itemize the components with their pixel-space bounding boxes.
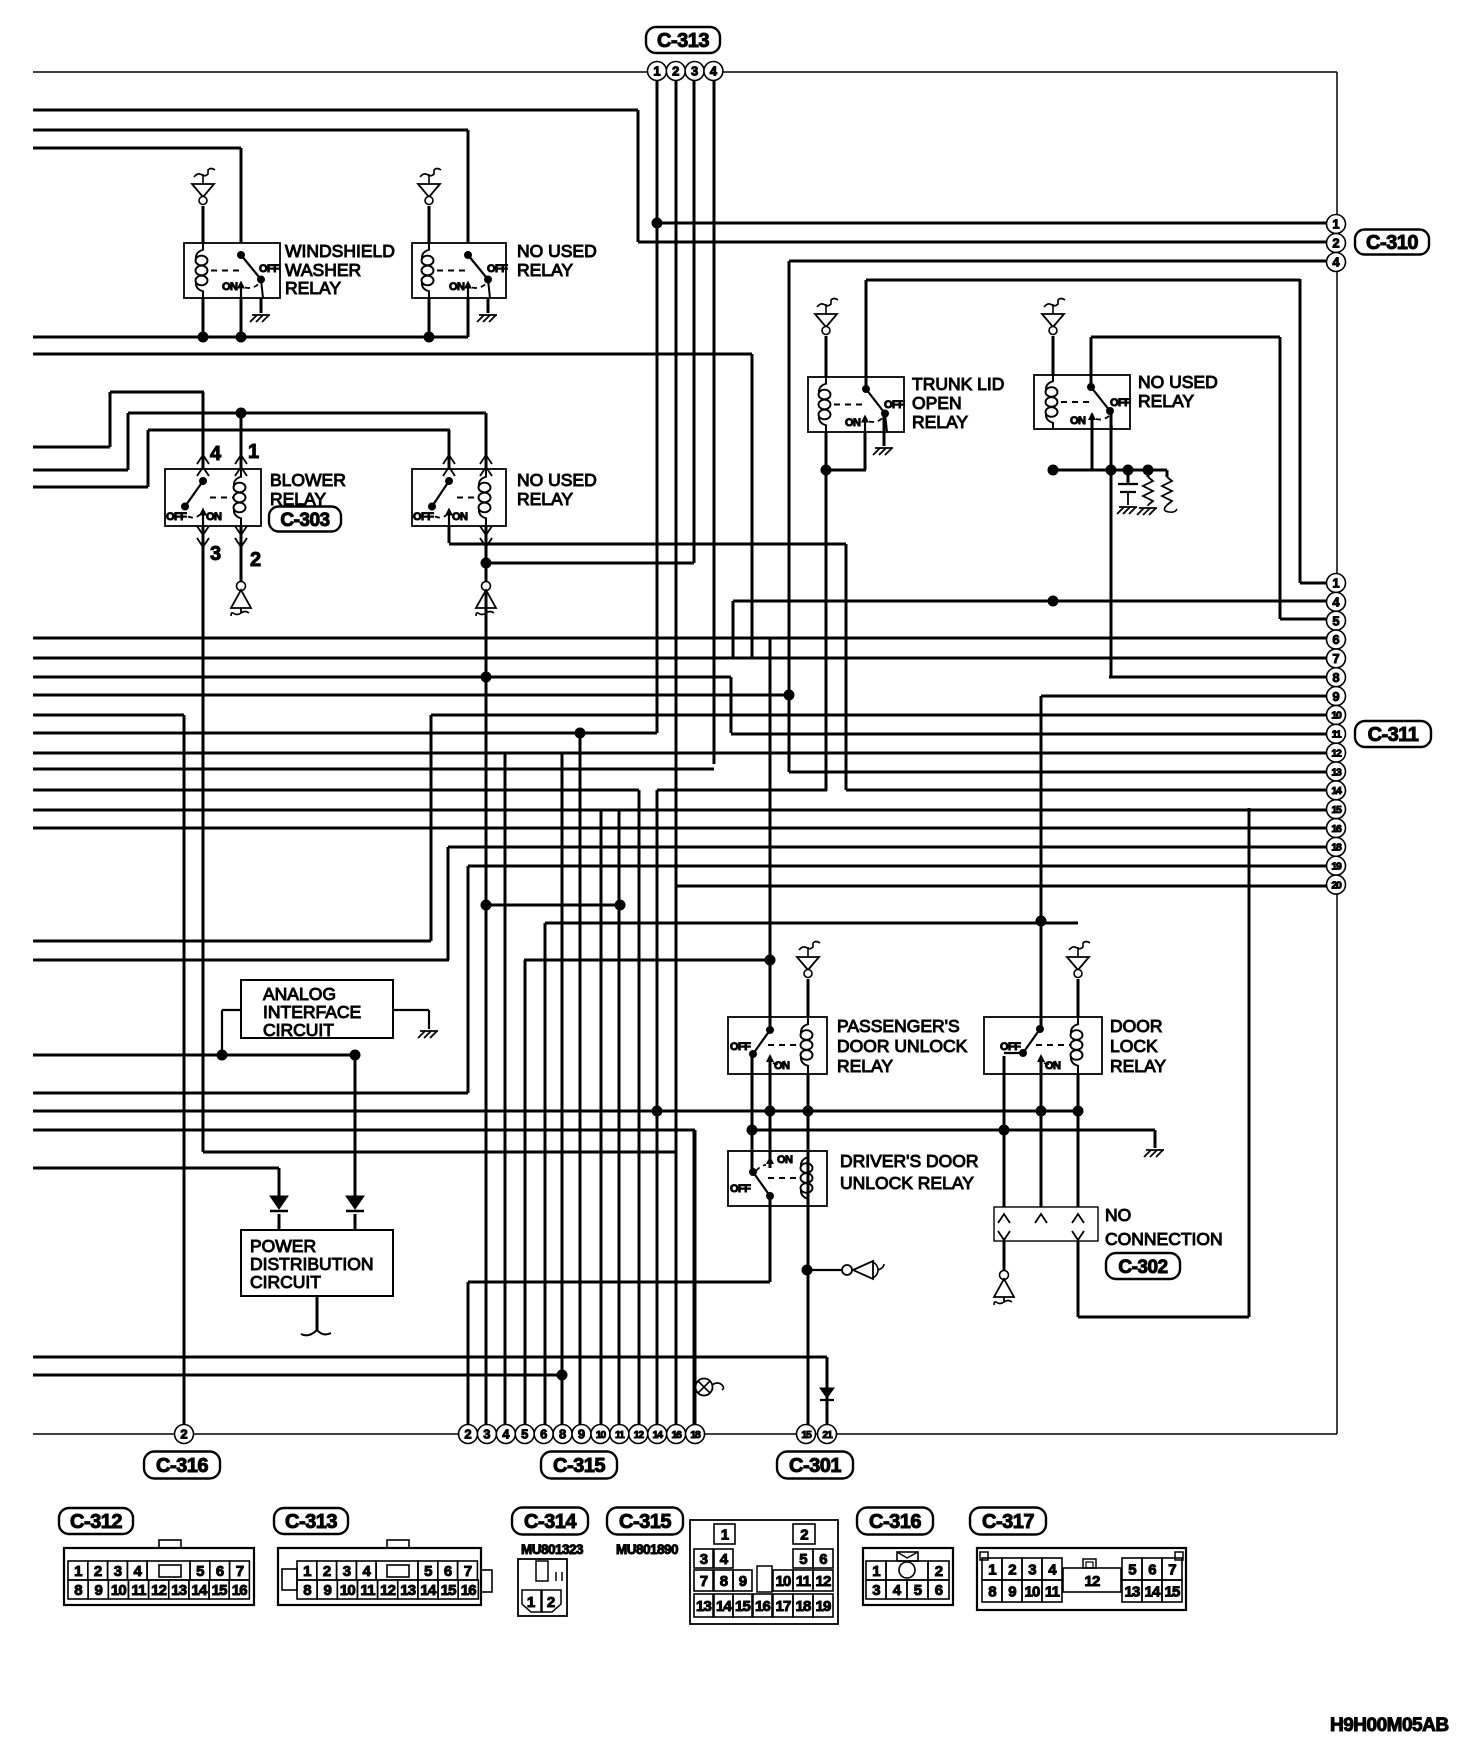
svg-text:C-303: C-303 [280,510,329,531]
svg-text:H9H00M05AB: H9H00M05AB [1330,1715,1449,1736]
svg-text:RELAY: RELAY [517,489,573,509]
svg-text:9: 9 [94,1582,102,1599]
svg-text:9: 9 [323,1582,331,1599]
svg-text:4: 4 [893,1582,902,1599]
svg-text:5: 5 [1128,1562,1136,1579]
svg-text:OFF: OFF [730,1183,751,1195]
svg-text:7: 7 [700,1573,708,1590]
svg-text:14: 14 [420,1582,437,1599]
svg-text:CONNECTION: CONNECTION [1105,1229,1223,1249]
svg-text:14: 14 [716,1598,733,1615]
svg-text:7: 7 [1168,1562,1176,1579]
svg-text:8: 8 [720,1573,728,1590]
svg-text:C-301: C-301 [789,1455,841,1477]
svg-text:15: 15 [1164,1584,1180,1601]
svg-text:18: 18 [1331,842,1342,854]
svg-text:DOOR: DOOR [1110,1016,1163,1036]
svg-text:1: 1 [653,64,660,79]
svg-text:CIRCUIT: CIRCUIT [263,1020,334,1040]
svg-text:NO USED: NO USED [517,470,597,490]
svg-text:2: 2 [94,1563,102,1580]
svg-text:INTERFACE: INTERFACE [263,1002,361,1022]
svg-text:8: 8 [988,1584,996,1601]
svg-text:4: 4 [1332,255,1340,270]
svg-text:C-315: C-315 [619,1511,671,1533]
svg-text:DRIVER'S DOOR: DRIVER'S DOOR [840,1151,979,1171]
svg-text:6: 6 [1332,632,1339,647]
svg-text:WINDSHIELD: WINDSHIELD [285,241,395,261]
svg-text:ON: ON [845,417,861,429]
svg-text:18: 18 [690,1429,701,1441]
svg-text:15: 15 [801,1429,812,1441]
svg-text:15: 15 [735,1598,751,1615]
svg-text:2: 2 [1332,236,1339,251]
svg-text:POWER: POWER [250,1236,316,1256]
svg-text:OPEN: OPEN [912,393,962,413]
svg-text:RELAY: RELAY [285,278,341,298]
svg-text:RELAY: RELAY [912,412,968,432]
svg-text:16: 16 [1331,823,1342,835]
svg-text:4: 4 [1048,1562,1057,1579]
svg-text:OFF: OFF [487,263,508,275]
svg-text:5: 5 [196,1563,204,1580]
svg-text:MU801323: MU801323 [521,1542,584,1557]
svg-text:C-311: C-311 [1368,724,1419,746]
svg-text:15: 15 [1331,804,1342,816]
svg-text:19: 19 [815,1598,831,1615]
svg-text:OFF: OFF [1000,1041,1021,1053]
svg-text:12: 12 [380,1582,396,1599]
svg-text:14: 14 [653,1429,664,1441]
svg-text:16: 16 [461,1582,477,1599]
svg-text:11: 11 [796,1573,811,1590]
svg-text:12: 12 [1084,1573,1100,1590]
svg-text:16: 16 [232,1582,248,1599]
svg-text:CIRCUIT: CIRCUIT [250,1272,321,1292]
svg-text:8: 8 [1332,670,1339,685]
svg-text:10: 10 [111,1582,127,1599]
svg-text:6: 6 [1148,1562,1156,1579]
svg-text:NO: NO [1105,1205,1131,1225]
svg-text:2: 2 [672,64,679,79]
svg-text:NO USED: NO USED [517,241,597,261]
svg-text:6: 6 [935,1582,943,1599]
svg-text:ON: ON [1045,1060,1061,1072]
svg-text:1: 1 [872,1563,880,1580]
svg-text:C-313: C-313 [657,30,709,52]
svg-text:8: 8 [559,1427,566,1442]
svg-text:2: 2 [1008,1562,1016,1579]
svg-text:3: 3 [872,1582,880,1599]
svg-text:1: 1 [527,1594,535,1611]
svg-text:8: 8 [303,1582,311,1599]
svg-text:11: 11 [360,1582,375,1599]
svg-text:3: 3 [483,1427,490,1442]
svg-text:C-315: C-315 [553,1455,605,1477]
svg-text:ON: ON [449,281,465,293]
svg-text:OFF: OFF [166,511,187,523]
svg-text:RELAY: RELAY [1110,1056,1166,1076]
svg-text:C-312: C-312 [70,1511,122,1533]
svg-text:16: 16 [755,1598,771,1615]
svg-text:WASHER: WASHER [285,260,361,280]
svg-text:2: 2 [547,1594,555,1611]
svg-text:13: 13 [1124,1584,1140,1601]
svg-text:5: 5 [424,1563,432,1580]
svg-text:21: 21 [822,1429,833,1441]
svg-text:19: 19 [1331,861,1342,873]
svg-text:C-302: C-302 [1118,1257,1167,1278]
svg-text:4: 4 [502,1427,510,1442]
svg-text:10: 10 [775,1573,791,1590]
svg-text:ON: ON [1070,415,1086,427]
svg-text:12: 12 [151,1582,167,1599]
svg-text:14: 14 [1331,785,1342,797]
svg-text:OFF: OFF [884,399,905,411]
svg-text:RELAY: RELAY [1138,391,1194,411]
svg-text:3: 3 [700,1551,708,1568]
svg-text:3: 3 [691,64,698,79]
svg-text:2: 2 [180,1427,187,1442]
svg-text:C-317: C-317 [982,1511,1034,1533]
svg-text:BLOWER: BLOWER [270,470,346,490]
svg-text:1: 1 [988,1562,996,1579]
svg-text:12: 12 [815,1573,831,1590]
svg-text:10: 10 [596,1429,607,1441]
svg-text:OFF: OFF [1110,397,1131,409]
svg-text:4: 4 [1332,595,1340,610]
svg-text:2: 2 [323,1563,331,1580]
svg-text:13: 13 [400,1582,416,1599]
svg-text:TRUNK LID: TRUNK LID [912,374,1004,394]
svg-text:7: 7 [236,1563,244,1580]
svg-text:1: 1 [1332,217,1339,232]
svg-text:11: 11 [131,1582,146,1599]
svg-text:1: 1 [721,1527,729,1544]
svg-text:9: 9 [578,1427,585,1442]
svg-text:14: 14 [191,1582,208,1599]
svg-text:6: 6 [540,1427,547,1442]
svg-text:5: 5 [914,1582,922,1599]
svg-text:OFF: OFF [259,263,280,275]
svg-text:13: 13 [171,1582,187,1599]
svg-text:9: 9 [739,1573,747,1590]
svg-text:C-310: C-310 [1366,232,1418,254]
svg-text:15: 15 [212,1582,228,1599]
svg-text:5: 5 [1332,613,1339,628]
svg-text:4: 4 [363,1563,372,1580]
svg-text:NO USED: NO USED [1138,372,1218,392]
svg-text:13: 13 [1331,766,1342,778]
svg-text:13: 13 [696,1598,712,1615]
svg-text:3: 3 [210,543,221,565]
svg-text:4: 4 [720,1551,729,1568]
svg-text:C-316: C-316 [869,1511,921,1533]
svg-text:ON: ON [452,511,468,523]
svg-text:12: 12 [634,1429,645,1441]
svg-text:2: 2 [935,1563,943,1580]
svg-text:5: 5 [521,1427,528,1442]
svg-text:3: 3 [114,1563,122,1580]
svg-text:4: 4 [210,443,222,465]
svg-text:DISTRIBUTION: DISTRIBUTION [250,1254,373,1274]
svg-text:1: 1 [303,1563,311,1580]
svg-text:11: 11 [1045,1584,1060,1601]
svg-text:7: 7 [464,1563,472,1580]
svg-text:ON: ON [206,511,222,523]
svg-text:OFF: OFF [730,1041,751,1053]
svg-text:ANALOG: ANALOG [263,984,336,1004]
svg-text:2: 2 [800,1527,808,1544]
svg-text:9: 9 [1008,1584,1016,1601]
svg-text:3: 3 [1028,1562,1036,1579]
svg-text:20: 20 [1331,879,1342,891]
svg-text:PASSENGER'S: PASSENGER'S [837,1016,960,1036]
svg-text:MU801890: MU801890 [616,1542,678,1557]
svg-text:15: 15 [441,1582,457,1599]
svg-text:2: 2 [250,549,261,571]
svg-text:6: 6 [444,1563,452,1580]
svg-text:ON: ON [774,1060,790,1072]
svg-text:LOCK: LOCK [1110,1036,1158,1056]
svg-text:10: 10 [1331,710,1342,722]
svg-text:C-314: C-314 [524,1511,577,1533]
svg-text:ON: ON [777,1154,793,1166]
svg-text:9: 9 [1332,689,1339,704]
svg-text:11: 11 [615,1429,625,1441]
svg-text:10: 10 [1024,1584,1040,1601]
svg-text:DOOR UNLOCK: DOOR UNLOCK [837,1036,968,1056]
svg-text:6: 6 [216,1563,224,1580]
svg-text:8: 8 [74,1582,82,1599]
svg-text:RELAY: RELAY [837,1056,893,1076]
svg-text:10: 10 [340,1582,356,1599]
svg-text:11: 11 [1332,729,1342,741]
svg-text:4: 4 [710,64,718,79]
svg-text:2: 2 [464,1427,471,1442]
svg-text:14: 14 [1144,1584,1161,1601]
svg-text:UNLOCK RELAY: UNLOCK RELAY [840,1173,974,1193]
svg-text:7: 7 [1332,651,1339,666]
svg-text:17: 17 [775,1598,791,1615]
svg-text:18: 18 [795,1598,811,1615]
svg-text:3: 3 [343,1563,351,1580]
svg-text:6: 6 [819,1551,827,1568]
svg-text:1: 1 [1332,576,1339,591]
svg-text:C-313: C-313 [285,1511,337,1533]
svg-text:16: 16 [671,1429,682,1441]
svg-text:OFF: OFF [413,511,434,523]
svg-text:C-316: C-316 [156,1455,208,1477]
svg-text:RELAY: RELAY [517,260,573,280]
svg-text:4: 4 [134,1563,143,1580]
svg-text:12: 12 [1331,747,1342,759]
svg-text:1: 1 [248,441,259,463]
svg-text:1: 1 [74,1563,82,1580]
svg-text:5: 5 [799,1551,807,1568]
svg-text:ON: ON [222,281,238,293]
